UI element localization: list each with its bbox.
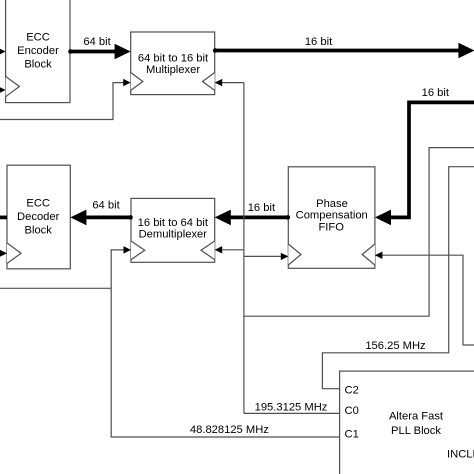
svg-text:156.25 MHz: 156.25 MHz (365, 340, 426, 352)
svg-text:64 bit: 64 bit (92, 199, 120, 211)
svg-text:Compensation: Compensation (296, 210, 368, 222)
wire: 64-bit data input into ECC Encoder (cropped at left edge) (0, 44, 6, 60)
svg-text:16 bit to 64 bit: 16 bit to 64 bit (138, 217, 209, 229)
wire: C0 net branch into Demultiplexer right clock pin (215, 246, 244, 253)
clock chevron on Multiplexer left edge (131, 73, 143, 91)
clock chevron on Demultiplexer left edge (131, 241, 145, 260)
svg-text:INCLK: INCLK (447, 449, 474, 461)
svg-text:64 bit: 64 bit (83, 36, 111, 48)
wire: C1 output 48.828125 MHz from PLL to Demultiplexer left clock (111, 246, 339, 437)
block: 16 bit to 64 bit Demultiplexer U4 (131, 198, 215, 262)
svg-text:Encoder: Encoder (17, 45, 59, 57)
svg-text:Demultiplexer: Demultiplexer (139, 229, 208, 241)
svg-text:Block: Block (25, 224, 53, 236)
wire: 195.3125 MHz trunk (C0 net) vertical riser (243, 83, 245, 414)
wire: C0 output from PLL (244, 412, 340, 414)
label: 156.25 MHz (365, 340, 426, 352)
clock chevron on Multiplexer right edge (203, 73, 215, 91)
pin label C2 (345, 384, 359, 396)
block: ECC Encoder Block U1 (6, 0, 70, 103)
block: ECC Decoder Block U3 (7, 165, 70, 269)
wire: C1 net branch to left edge (0, 287, 111, 289)
svg-text:Multiplexer: Multiplexer (146, 64, 200, 76)
svg-text:ECC: ECC (26, 31, 50, 43)
label: 48.828125 MHz (190, 424, 269, 436)
svg-text:ECC: ECC (26, 197, 50, 209)
label: 16 bit (right) (422, 87, 450, 99)
svg-text:16 bit: 16 bit (305, 36, 333, 48)
svg-text:C1: C1 (345, 428, 359, 440)
clock chevron on ECC Decoder left edge (7, 243, 21, 264)
pin label C0 (345, 405, 359, 417)
wire: 64 bit bus ECC Encoder to Multiplexer (68, 44, 131, 60)
clock chevron on FIFO right edge (362, 244, 375, 265)
pin label C1 (345, 428, 359, 440)
svg-text:Altera Fast: Altera Fast (389, 411, 444, 423)
wire: C2 output 156.25 MHz from PLL to right edge (322, 167, 474, 389)
svg-text:C0: C0 (345, 405, 359, 417)
wire: clock arrow into ECC Encoder clock pin (cropped) (0, 86, 6, 93)
clock chevron on Demultiplexer right edge (201, 241, 215, 260)
wire: C0 net branch to right edge (via x=429) (244, 148, 474, 317)
label: 16 bit (top) (305, 36, 333, 48)
label: 195.3125 MHz (255, 401, 328, 413)
svg-text:16 bit: 16 bit (248, 202, 276, 214)
svg-text:16 bit: 16 bit (422, 87, 450, 99)
block: Phase Compensation FIFO U5 (288, 167, 375, 268)
label: 16 bit (middle) (248, 202, 276, 214)
clock chevron on ECC Encoder left edge (6, 76, 20, 96)
svg-text:Phase: Phase (316, 198, 348, 210)
svg-text:PLL Block: PLL Block (391, 425, 441, 437)
svg-text:C2: C2 (345, 384, 359, 396)
wire: C0 net branch into Multiplexer right clock pin (215, 79, 244, 86)
wire: 64 bit bus Demultiplexer to ECC Decoder (70, 210, 133, 226)
wire: 16 bit bus FIFO to Demultiplexer (215, 210, 290, 226)
svg-text:FIFO: FIFO (318, 222, 344, 234)
wire: 16 bit bus Multiplexer to right edge (213, 43, 474, 59)
label: 64 bit (middle) (92, 199, 120, 211)
pin label INCLK (cropped) (447, 449, 474, 461)
block: 64 bit to 16 bit Multiplexer U2 (131, 32, 215, 95)
svg-text:Decoder: Decoder (17, 211, 60, 223)
svg-text:195.3125 MHz: 195.3125 MHz (255, 401, 328, 413)
svg-text:Block: Block (24, 59, 52, 71)
wire: C0 net branch into FIFO left clock pin (244, 253, 288, 260)
clock chevron on FIFO left edge (288, 244, 301, 265)
svg-text:48.828125 MHz: 48.828125 MHz (190, 424, 269, 436)
label: 64 bit (top) (83, 36, 111, 48)
wire: recovered clock from right edge into FIFO right clock pin (375, 252, 474, 346)
wire: clock arrow into ECC Decoder clock pin (cropped) (0, 250, 7, 257)
wire: clock from left edge up into Multiplexer left clock pin (0, 79, 131, 120)
svg-text:64 bit to 16 bit: 64 bit to 16 bit (138, 52, 209, 64)
wire: 16 bit bus from right edge down into FIFO (375, 102, 474, 225)
block: Altera Fast PLL Block U6 (cropped at right/bottom) (340, 371, 474, 474)
wire: 64 bit data out of ECC Decoder (cropped at left edge) (0, 216, 7, 220)
